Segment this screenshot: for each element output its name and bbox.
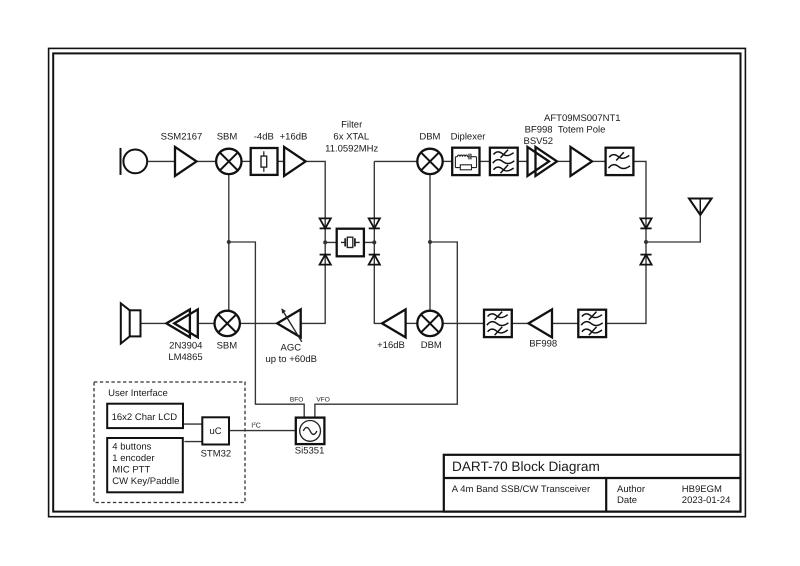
svg-text:BSV52: BSV52: [524, 136, 554, 147]
svg-text:6x XTAL: 6x XTAL: [333, 132, 369, 143]
svg-text:+16dB: +16dB: [280, 132, 308, 143]
svg-text:Totem Pole: Totem Pole: [558, 125, 606, 136]
svg-text:AFT09MS007NT1: AFT09MS007NT1: [544, 113, 621, 124]
svg-text:SBM: SBM: [217, 340, 238, 351]
svg-text:BF998: BF998: [529, 339, 557, 350]
svg-text:11.0592MHz: 11.0592MHz: [325, 144, 378, 155]
svg-text:4 buttons: 4 buttons: [112, 442, 151, 453]
svg-text:up to +60dB: up to +60dB: [265, 354, 317, 365]
svg-text:User Interface: User Interface: [108, 388, 168, 399]
svg-text:SSM2167: SSM2167: [161, 132, 203, 143]
svg-text:A 4m Band SSB/CW Transceiver: A 4m Band SSB/CW Transceiver: [452, 484, 590, 495]
svg-text:VFO: VFO: [316, 397, 329, 404]
svg-text:DART-70 Block Diagram: DART-70 Block Diagram: [452, 459, 600, 474]
svg-text:Diplexer: Diplexer: [451, 132, 486, 143]
svg-text:BF998: BF998: [525, 125, 553, 136]
svg-text:2N3904: 2N3904: [169, 340, 202, 351]
svg-text:DBM: DBM: [421, 340, 442, 351]
svg-text:+16dB: +16dB: [377, 340, 405, 351]
svg-text:uC: uC: [210, 426, 222, 437]
svg-text:1 encoder: 1 encoder: [112, 453, 154, 464]
svg-text:Filter: Filter: [341, 120, 362, 131]
svg-text:CW Key/Paddle: CW Key/Paddle: [112, 476, 179, 487]
svg-text:SBM: SBM: [217, 132, 238, 143]
svg-text:2023-01-24: 2023-01-24: [682, 495, 731, 506]
svg-text:HB9EGM: HB9EGM: [682, 484, 722, 495]
svg-text:STM32: STM32: [201, 449, 232, 460]
svg-text:MIC PTT: MIC PTT: [112, 465, 150, 476]
svg-text:-4dB: -4dB: [254, 132, 274, 143]
svg-text:AGC: AGC: [281, 343, 302, 354]
svg-text:Si5351: Si5351: [295, 446, 325, 457]
svg-text:BFO: BFO: [290, 397, 303, 404]
svg-text:I2C: I2C: [251, 421, 261, 430]
svg-text:LM4865: LM4865: [168, 352, 202, 363]
svg-text:Author: Author: [617, 484, 645, 495]
svg-text:DBM: DBM: [419, 132, 440, 143]
svg-text:Date: Date: [617, 495, 637, 506]
svg-text:16x2 Char LCD: 16x2 Char LCD: [112, 412, 178, 423]
